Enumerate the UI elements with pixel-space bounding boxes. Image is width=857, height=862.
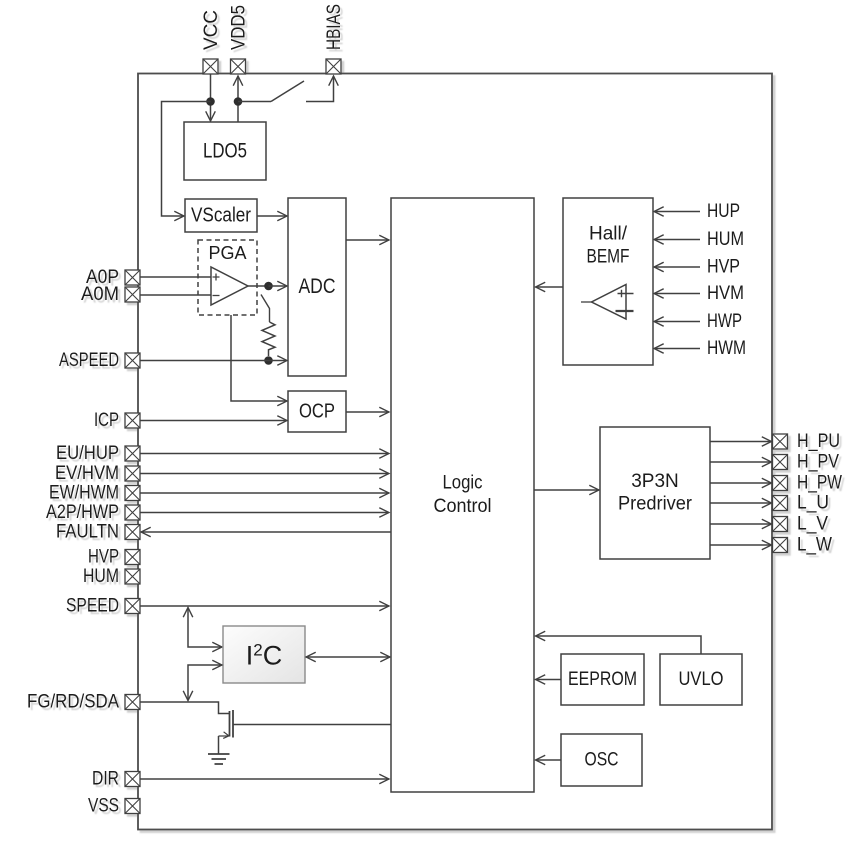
transistor Q1 gate bar <box>232 710 234 738</box>
svg-text:HUP: HUP <box>707 201 740 222</box>
wire I2C to FG/RD/SDA branch <box>188 665 222 701</box>
svg-text:ASPEED: ASPEED <box>59 350 119 371</box>
svg-text:A0M: A0M <box>81 284 119 305</box>
block VScaler <box>185 199 257 232</box>
block OCP <box>288 391 346 432</box>
pin HUM <box>83 566 140 587</box>
svg-text:PGA: PGA <box>208 243 246 263</box>
svg-text:EU/HUP: EU/HUP <box>56 443 119 464</box>
block ADC <box>288 198 346 376</box>
pin H_PW <box>710 473 842 494</box>
pin HBIAS <box>324 4 345 74</box>
svg-text:FAULTN: FAULTN <box>56 522 119 543</box>
svg-text:VSS: VSS <box>88 796 119 817</box>
wire LDO5 output to VDD5 pin <box>237 76 239 122</box>
svg-text:HVM: HVM <box>707 283 744 304</box>
wire VCC to LDO5 <box>210 74 212 121</box>
wire A0M to PGA <box>140 294 211 296</box>
junction dot PGA output node <box>264 282 273 291</box>
pin A2P/HWP <box>46 502 140 523</box>
svg-text:SPEED: SPEED <box>66 596 119 617</box>
ground <box>208 754 230 764</box>
pin H_PU <box>710 431 840 452</box>
wire Logic Control to FAULTN <box>141 531 391 533</box>
wire VScaler to ADC <box>257 215 287 217</box>
node HUP wire to Hall/BEMF <box>654 201 740 222</box>
pin VDD5 <box>229 5 250 74</box>
wire SPEED to Logic Control <box>140 605 389 607</box>
svg-text:LDO5: LDO5 <box>203 140 247 163</box>
pin EV/HVM <box>55 463 140 484</box>
wire switch to HBIAS pin <box>306 76 334 102</box>
svg-text:HUM: HUM <box>83 566 119 587</box>
wire node to ADC <box>269 285 288 287</box>
pin L_W <box>710 535 832 556</box>
pin L_U <box>710 493 829 514</box>
svg-text:L_U: L_U <box>797 493 829 514</box>
svg-text:H_PV: H_PV <box>797 452 839 473</box>
pin L_V <box>710 514 828 535</box>
svg-text:VDD5: VDD5 <box>229 5 250 50</box>
pin EW/HWM <box>49 483 140 504</box>
wire A0P to PGA <box>140 276 211 278</box>
wire VCC to VScaler <box>162 102 211 217</box>
pin EU/HUP <box>56 443 140 464</box>
pin SPEED <box>66 596 140 617</box>
pin DIR <box>92 769 140 790</box>
block LDO5 <box>184 122 266 180</box>
wire ASPEED to ADC <box>140 360 287 362</box>
svg-text:VScaler: VScaler <box>191 205 251 227</box>
svg-text:BEMF: BEMF <box>587 247 630 268</box>
wire PGA output to node <box>248 285 269 287</box>
wire I2C to Logic Control (bidirectional) <box>306 656 390 658</box>
block OSC <box>561 734 642 786</box>
svg-text:DIR: DIR <box>92 769 119 790</box>
wire UVLO to Logic Control <box>536 636 702 654</box>
svg-text:UVLO: UVLO <box>679 669 724 690</box>
wire OCP to Logic Control <box>346 411 389 413</box>
transistor Q1 channel bar <box>229 711 231 737</box>
transistor Q1 source <box>219 732 230 739</box>
wire EU/HUP to Logic Control <box>140 453 389 455</box>
svg-text:HVP: HVP <box>88 547 119 568</box>
svg-text:Predriver: Predriver <box>618 494 693 515</box>
block PGA (dashed) <box>198 240 257 315</box>
svg-text:I2C: I2C <box>246 641 282 671</box>
wire OSC to Logic Control <box>536 759 562 761</box>
svg-text:H_PU: H_PU <box>797 431 840 452</box>
wire EW/HWM to Logic Control <box>140 492 389 494</box>
pin A0P <box>86 267 140 288</box>
pin FG/RD/SDA <box>27 692 140 713</box>
wire EV/HVM to Logic Control <box>140 473 389 475</box>
wire A2P/HWP to Logic Control <box>140 512 389 514</box>
block EEPROM <box>561 654 644 705</box>
svg-text:OSC: OSC <box>585 750 619 771</box>
svg-text:HVP: HVP <box>707 257 740 278</box>
wire ICP to OCP <box>140 420 287 422</box>
block 3P3N Predriver <box>600 427 710 559</box>
svg-text:Hall/: Hall/ <box>589 224 628 245</box>
node HWP wire to Hall/BEMF <box>654 311 742 332</box>
wire VDD5 dot to switch <box>238 101 271 103</box>
block UVLO <box>660 654 742 705</box>
wire DIR to Logic Control <box>140 778 389 780</box>
junction dot on VCC net <box>206 97 215 106</box>
node HVM wire to Hall/BEMF <box>654 283 744 304</box>
svg-text:OCP: OCP <box>299 401 335 423</box>
svg-text:HUM: HUM <box>707 229 744 250</box>
wire Logic Control to 3P3N Predriver <box>534 489 599 491</box>
block Logic Control <box>391 198 534 792</box>
svg-text:VCC: VCC <box>201 10 222 50</box>
pin A0M <box>81 284 140 305</box>
pin ASPEED <box>59 350 140 371</box>
svg-text:HWP: HWP <box>707 311 742 332</box>
svg-text:L_W: L_W <box>797 535 832 556</box>
pin FAULTN <box>56 522 140 543</box>
svg-text:ADC: ADC <box>299 275 336 298</box>
svg-text:HBIAS: HBIAS <box>324 4 345 50</box>
svg-text:H_PW: H_PW <box>797 473 842 494</box>
node HVP wire to Hall/BEMF <box>654 257 740 278</box>
wire ADC to Logic Control <box>346 239 389 241</box>
pin VCC <box>201 10 222 74</box>
pin HVP <box>88 547 140 568</box>
wire SPEED branch to I2C <box>188 608 222 648</box>
svg-text:EW/HWM: EW/HWM <box>49 483 119 504</box>
wire Hall/BEMF to Logic Control <box>536 286 564 288</box>
svg-text:HWM: HWM <box>707 338 746 359</box>
node HUM wire to Hall/BEMF <box>654 229 744 250</box>
svg-text:L_V: L_V <box>797 514 828 535</box>
op-amp U1 inside PGA <box>211 267 248 305</box>
wire PGA feedback to OCP <box>231 315 287 401</box>
comparator U2 inside Hall/BEMF <box>581 285 634 320</box>
pin VSS <box>88 796 140 817</box>
svg-text:EEPROM: EEPROM <box>568 669 637 690</box>
junction dot on VDD5 net <box>234 97 243 106</box>
outer IC boundary box <box>138 74 772 830</box>
wire EEPROM to Logic Control <box>536 679 562 681</box>
node HWM wire to Hall/BEMF <box>654 338 746 359</box>
wire FG/RD/SDA to MOSFET drain <box>140 702 230 714</box>
resistor R1 <box>262 322 275 356</box>
wire Q1 source to ground <box>218 736 220 754</box>
svg-text:Control: Control <box>434 496 492 517</box>
svg-text:FG/RD/SDA: FG/RD/SDA <box>27 692 119 713</box>
block I2C <box>223 626 305 683</box>
pin ICP <box>94 410 140 431</box>
pin H_PV <box>710 452 839 473</box>
switch SW1 blade (open) <box>271 81 304 102</box>
svg-text:EV/HVM: EV/HVM <box>55 463 119 484</box>
svg-text:ICP: ICP <box>94 410 119 431</box>
svg-text:A2P/HWP: A2P/HWP <box>46 502 119 523</box>
block Hall/BEMF <box>563 198 653 365</box>
junction dot on ASPEED net <box>264 356 273 365</box>
switch SW2 blade to resistor <box>261 295 270 323</box>
wire Q1 gate to Logic Control <box>233 724 391 726</box>
svg-text:Logic: Logic <box>443 473 483 494</box>
svg-text:3P3N: 3P3N <box>631 471 679 492</box>
